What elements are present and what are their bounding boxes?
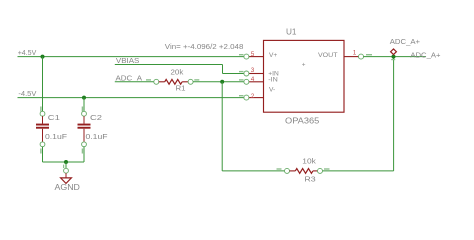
svg-text:10k: 10k xyxy=(302,157,316,166)
pin 4 -IN stub xyxy=(239,79,264,84)
svg-text:+4.5V: +4.5V xyxy=(18,48,37,57)
wire feedback bottom to R3 xyxy=(222,170,284,172)
wire VBIAS vertical step xyxy=(222,65,224,74)
svg-text:AGND: AGND xyxy=(55,182,80,192)
testpoint diamond ADC_A+ xyxy=(391,49,397,55)
wire C1 bottom xyxy=(42,147,44,162)
wire right vertical feedback xyxy=(393,57,395,171)
wire C2 column from -4.5V xyxy=(83,98,85,112)
wire C1 column from +4.5V xyxy=(42,57,44,112)
node junction VOUT / ADC_A+ xyxy=(392,55,396,59)
capacitor C1 xyxy=(36,107,49,154)
svg-text:2: 2 xyxy=(251,93,255,100)
pin 5 V+ stub xyxy=(239,54,264,59)
wire ADC_A to R1 xyxy=(115,81,154,83)
resistor R1 xyxy=(146,79,199,84)
svg-text:C2: C2 xyxy=(90,113,102,122)
svg-text:V-: V- xyxy=(269,86,275,93)
wire +4.5V rail xyxy=(18,56,244,58)
svg-text:ADC_A+: ADC_A+ xyxy=(390,37,420,46)
svg-text:-4.5V: -4.5V xyxy=(18,89,36,98)
node junction on ground rail xyxy=(64,160,68,164)
svg-text:ADC_A: ADC_A xyxy=(116,73,143,82)
svg-text:0.1uF: 0.1uF xyxy=(45,132,68,141)
wire VOUT to ADC_A+ xyxy=(364,56,427,58)
capacitor C2 xyxy=(78,107,91,154)
svg-text:ADC_A+: ADC_A+ xyxy=(410,50,440,59)
svg-text:OPA365: OPA365 xyxy=(285,116,320,125)
tiny origin cross at junction xyxy=(391,59,395,60)
wire C2 bottom xyxy=(83,147,85,162)
wire VBIAS horizontal xyxy=(115,64,223,66)
svg-text:5: 5 xyxy=(251,51,255,58)
svg-text:R3: R3 xyxy=(304,175,315,184)
svg-text:Vin= +-4.096/2 +2.048: Vin= +-4.096/2 +2.048 xyxy=(165,42,244,51)
pin 3 +IN stub xyxy=(239,71,264,76)
wire AGND stub xyxy=(65,162,67,168)
svg-text:3: 3 xyxy=(251,67,255,74)
svg-text:R1: R1 xyxy=(176,84,186,93)
svg-text:VBIAS: VBIAS xyxy=(116,56,140,65)
node junction on -4.5V rail xyxy=(82,96,86,100)
svg-text:+: + xyxy=(302,62,306,69)
op-amp U1 xyxy=(264,40,345,112)
svg-text:20k: 20k xyxy=(171,68,184,77)
svg-text:1: 1 xyxy=(353,50,357,57)
svg-text:-IN: -IN xyxy=(268,76,278,83)
wire bottom ground rail xyxy=(43,161,85,163)
svg-text:0.1uF: 0.1uF xyxy=(86,132,109,141)
pin 1 VOUT stub xyxy=(344,54,372,59)
wire feedback vertical left xyxy=(221,82,223,171)
svg-text:U1: U1 xyxy=(286,27,297,36)
pin 2 V- stub xyxy=(239,95,264,100)
wire R3 to right vertical xyxy=(323,170,394,172)
svg-text:VOUT: VOUT xyxy=(318,52,338,59)
resistor R3 xyxy=(277,168,330,173)
wire R1 to -IN pin xyxy=(193,81,244,83)
svg-text:V+: V+ xyxy=(269,52,277,59)
svg-text:4: 4 xyxy=(251,76,255,83)
svg-text:C1: C1 xyxy=(48,113,60,122)
node junction on +4.5V rail xyxy=(41,55,45,59)
wire -4.5V rail xyxy=(18,97,244,99)
node junction -IN / feedback xyxy=(220,80,224,84)
wire VBIAS to +IN pin xyxy=(223,73,244,75)
ground AGND xyxy=(61,165,72,184)
